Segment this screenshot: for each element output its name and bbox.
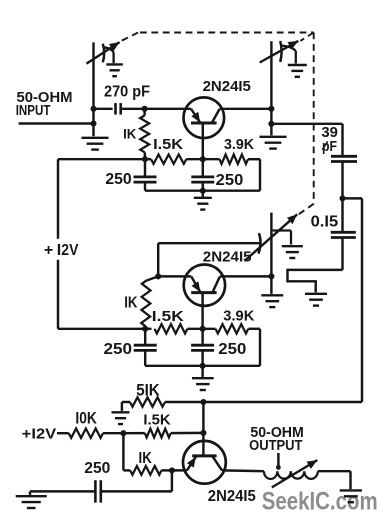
svg-text:I.5K: I.5K — [152, 308, 184, 325]
svg-text:I0K: I0K — [75, 410, 97, 428]
svg-text:250: 250 — [104, 341, 133, 358]
svg-text:2N24I5: 2N24I5 — [203, 248, 252, 265]
svg-text:I.5K: I.5K — [143, 412, 170, 429]
svg-text:250: 250 — [216, 172, 244, 189]
svg-text:+: + — [44, 242, 53, 259]
svg-text:0.I5: 0.I5 — [311, 214, 339, 231]
svg-text:2N24I5: 2N24I5 — [208, 488, 256, 505]
svg-text:+I2V: +I2V — [22, 425, 57, 442]
svg-text:IK: IK — [139, 450, 153, 467]
svg-text:SeekIC.com: SeekIC.com — [262, 488, 378, 516]
svg-text:IK: IK — [123, 126, 136, 142]
svg-text:3.9K: 3.9K — [224, 137, 255, 153]
svg-text:OUTPUT: OUTPUT — [249, 438, 303, 454]
svg-text:5IK: 5IK — [136, 381, 160, 399]
svg-text:2N24I5: 2N24I5 — [203, 78, 251, 95]
svg-text:2V: 2V — [61, 242, 78, 259]
svg-text:250: 250 — [105, 171, 131, 188]
svg-text:250: 250 — [218, 341, 246, 358]
svg-text:250: 250 — [84, 460, 110, 477]
svg-text:270 pF: 270 pF — [104, 83, 150, 100]
svg-text:IK: IK — [124, 295, 138, 312]
svg-text:3.9K: 3.9K — [223, 308, 254, 325]
svg-text:INPUT: INPUT — [16, 103, 51, 119]
svg-text:I.5K: I.5K — [153, 137, 184, 153]
